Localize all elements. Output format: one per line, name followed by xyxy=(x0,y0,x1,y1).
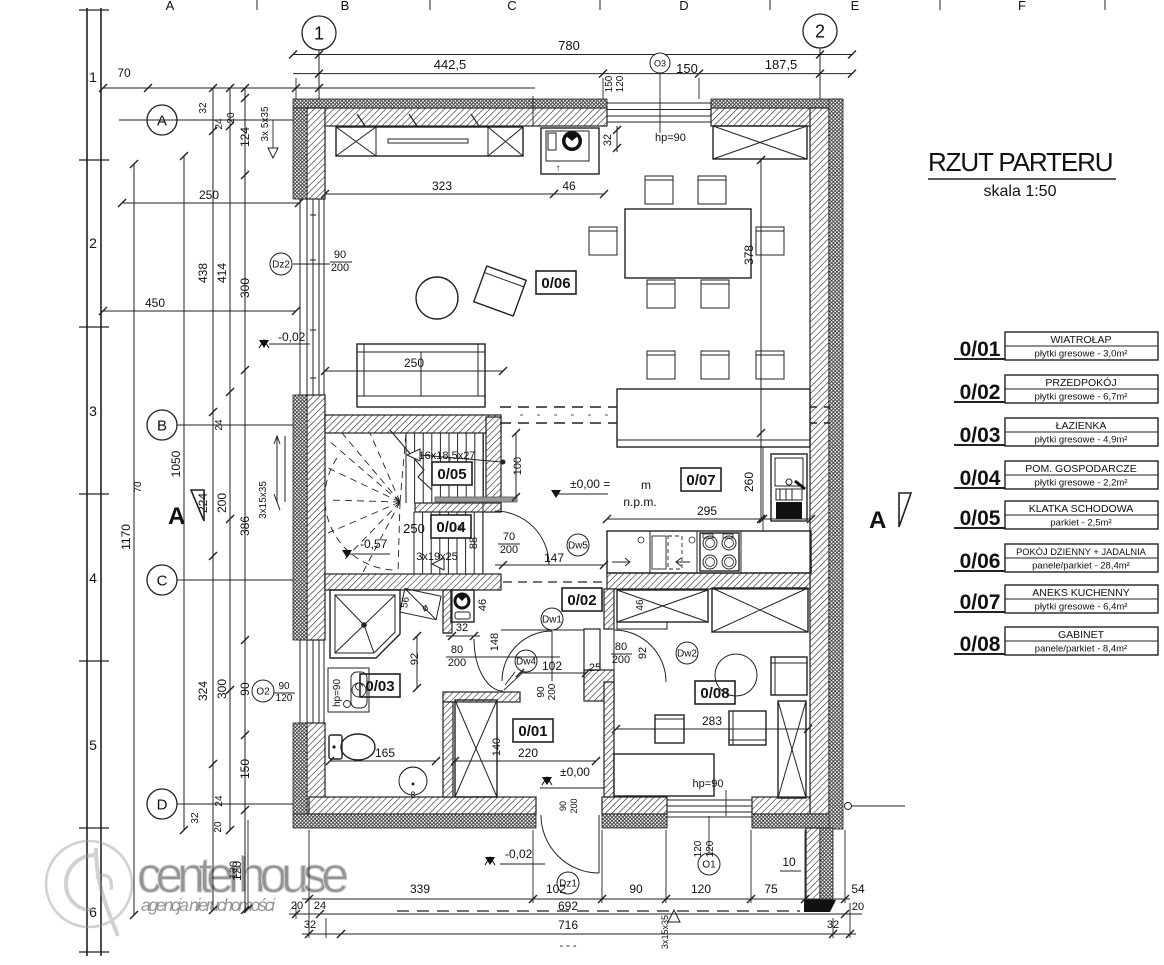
svg-text:0/05: 0/05 xyxy=(960,507,1001,530)
svg-text:250: 250 xyxy=(403,521,425,536)
dashed overhang line xyxy=(397,910,800,912)
boundary line 0/01 0/02 xyxy=(501,629,584,631)
svg-text:5: 5 xyxy=(89,737,97,753)
svg-text:0/02: 0/02 xyxy=(567,592,596,609)
svg-text:RZUT PARTERU: RZUT PARTERU xyxy=(928,147,1114,177)
wall stub 25 xyxy=(584,629,600,694)
svg-text:120: 120 xyxy=(705,840,716,857)
svg-text:378: 378 xyxy=(742,245,756,265)
interior wall stairs right xyxy=(486,417,501,512)
room label 0/06 living xyxy=(536,271,576,294)
exterior wall right insulation xyxy=(829,99,843,829)
svg-text:n.p.m.: n.p.m. xyxy=(623,495,656,509)
svg-text:450: 450 xyxy=(145,296,165,310)
exterior wall left insulation xyxy=(293,108,307,199)
washing machine xyxy=(451,590,474,622)
svg-text:150: 150 xyxy=(238,759,252,779)
door label Dz1 xyxy=(557,872,579,894)
axis marker 2 xyxy=(803,14,837,48)
svg-text:32: 32 xyxy=(198,102,209,114)
svg-text:323: 323 xyxy=(432,179,452,193)
dim 250 left xyxy=(122,202,299,204)
exterior wall bottom insulation xyxy=(293,814,536,828)
exterior wall bottom masonry xyxy=(309,797,536,814)
svg-text:płytki gresowe - 3,0m²: płytki gresowe - 3,0m² xyxy=(1035,349,1128,360)
door Dw5 stairs xyxy=(495,564,549,566)
interior wall living/stairs xyxy=(325,415,501,433)
svg-text:panele/parkiet - 28,4m²: panele/parkiet - 28,4m² xyxy=(1032,561,1130,572)
chair xyxy=(756,351,784,379)
svg-text:0/01: 0/01 xyxy=(960,338,1001,361)
svg-text:70: 70 xyxy=(503,531,515,543)
interior wall 0/08 left upper xyxy=(604,589,614,629)
desk chair 0/08 xyxy=(715,654,757,696)
svg-text:0/07: 0/07 xyxy=(960,591,1001,614)
level 0,00 entry xyxy=(542,777,552,785)
door label Dw4 xyxy=(515,650,537,672)
svg-text:300: 300 xyxy=(215,679,229,699)
dim chain 1050 xyxy=(183,156,185,830)
svg-text:90: 90 xyxy=(278,681,290,692)
svg-text:140: 140 xyxy=(491,738,503,756)
dishwasher dashed xyxy=(652,536,666,569)
room label 0/01 entry xyxy=(513,719,553,742)
dim 147 xyxy=(503,564,604,566)
svg-text:±0,00: ±0,00 xyxy=(560,765,590,779)
dim row 339 102 90 120 75 54 xyxy=(302,898,850,900)
svg-text:3x 5x35: 3x 5x35 xyxy=(260,106,271,141)
svg-text:Dz2: Dz2 xyxy=(272,260,290,271)
svg-text:70: 70 xyxy=(117,66,131,80)
window marker O3 xyxy=(650,53,670,73)
door Dw4 bath xyxy=(474,639,503,691)
svg-text:O2: O2 xyxy=(256,687,270,698)
svg-text:0/07: 0/07 xyxy=(686,472,715,489)
svg-text:200: 200 xyxy=(500,544,518,556)
svg-text:100: 100 xyxy=(512,457,524,475)
svg-text:442,5: 442,5 xyxy=(434,57,467,72)
dining table xyxy=(625,209,751,278)
svg-text:75: 75 xyxy=(764,882,778,896)
svg-text:0/06: 0/06 xyxy=(541,275,570,292)
svg-text:324: 324 xyxy=(196,681,210,701)
svg-text:O1: O1 xyxy=(702,860,716,871)
interior wall 0/08 left lower xyxy=(604,682,614,797)
svg-text:224: 224 xyxy=(196,493,210,513)
svg-text:0/08: 0/08 xyxy=(960,633,1001,656)
svg-text:10: 10 xyxy=(782,855,796,869)
svg-text:16x18,5x27: 16x18,5x27 xyxy=(419,450,476,462)
svg-text:283: 283 xyxy=(702,714,722,728)
svg-text:A: A xyxy=(869,507,886,534)
watermark logo xyxy=(46,841,349,936)
door label Dw1 xyxy=(541,608,563,630)
svg-text:hp=90: hp=90 xyxy=(693,778,724,790)
svg-text:8: 8 xyxy=(458,524,463,533)
svg-text:3x15x35: 3x15x35 xyxy=(258,481,269,519)
svg-text:ŁAZIENKA: ŁAZIENKA xyxy=(1056,420,1107,432)
svg-text:120: 120 xyxy=(691,882,711,896)
svg-text:295: 295 xyxy=(697,504,717,518)
svg-text:20: 20 xyxy=(226,112,237,124)
svg-text:A: A xyxy=(157,112,167,129)
axis marker C xyxy=(147,565,177,595)
svg-text:90: 90 xyxy=(536,686,547,698)
svg-text:Dw4: Dw4 xyxy=(516,657,536,668)
svg-text:KLATKA SCHODOWA: KLATKA SCHODOWA xyxy=(1029,503,1133,515)
svg-text:220: 220 xyxy=(518,746,538,760)
bottom extension lines xyxy=(296,830,850,938)
svg-text:0/03: 0/03 xyxy=(365,678,394,695)
svg-text:PRZEDPOKÓJ: PRZEDPOKÓJ xyxy=(1045,376,1116,389)
svg-text:150: 150 xyxy=(676,61,698,76)
dim 250 sofa xyxy=(325,370,503,372)
axis marker D xyxy=(147,789,177,819)
svg-text:200: 200 xyxy=(215,493,229,513)
svg-text:70: 70 xyxy=(133,481,144,493)
svg-text:1050: 1050 xyxy=(169,450,183,477)
svg-text:-0,02: -0,02 xyxy=(278,330,306,344)
room label 0/05 stairs xyxy=(432,462,472,485)
wall stub bottom right xyxy=(806,828,820,900)
svg-text:200: 200 xyxy=(331,262,349,274)
svg-text:32: 32 xyxy=(827,919,839,931)
svg-text:panele/parkiet - 8,4m²: panele/parkiet - 8,4m² xyxy=(1035,644,1127,655)
dim 450 left xyxy=(103,310,296,312)
svg-text:120: 120 xyxy=(693,840,704,857)
room label 0/08 office xyxy=(695,681,735,704)
kitchen top cabinets xyxy=(336,127,523,156)
svg-text:46: 46 xyxy=(477,599,489,611)
svg-text:165: 165 xyxy=(375,746,395,760)
svg-text:płytki gresowe - 6,7m²: płytki gresowe - 6,7m² xyxy=(1035,392,1128,403)
svg-text:150: 150 xyxy=(604,75,615,92)
svg-text:8: 8 xyxy=(410,790,415,800)
closet 0/01 xyxy=(455,700,497,797)
svg-text:80: 80 xyxy=(451,644,463,656)
washbasin xyxy=(328,668,369,712)
svg-text:płytki gresowe - 4,9m²: płytki gresowe - 4,9m² xyxy=(1035,435,1128,446)
door Dw1 hall xyxy=(551,631,553,681)
window O2 left wall xyxy=(298,640,325,723)
svg-text:92: 92 xyxy=(637,647,649,659)
exterior wall right masonry xyxy=(810,108,829,814)
room label 0/04 storage xyxy=(431,515,471,538)
svg-text:0/04: 0/04 xyxy=(960,467,1001,490)
dim chain col c xyxy=(244,88,246,910)
svg-text:780: 780 xyxy=(558,38,580,53)
svg-text:20: 20 xyxy=(213,821,224,833)
dim 220 xyxy=(455,760,596,762)
window O3 top xyxy=(607,101,711,126)
side table 0/08 xyxy=(655,715,684,743)
svg-text:24: 24 xyxy=(214,419,225,431)
bucket xyxy=(399,767,427,795)
shower xyxy=(330,590,400,658)
armchair xyxy=(474,266,526,316)
svg-text:92: 92 xyxy=(409,653,421,665)
chair xyxy=(647,280,675,308)
dim 295 xyxy=(607,518,811,520)
drain marker right xyxy=(845,803,852,810)
svg-text:102: 102 xyxy=(542,659,562,673)
stairs handrail bar xyxy=(435,497,517,502)
dim row 716 xyxy=(302,933,856,935)
svg-text:Dw5: Dw5 xyxy=(568,541,588,552)
svg-text:90: 90 xyxy=(334,249,346,261)
svg-text:1: 1 xyxy=(89,69,97,85)
chair xyxy=(701,351,729,379)
svg-text:skala 1:50: skala 1:50 xyxy=(984,183,1057,200)
wardrobe top right xyxy=(713,126,807,159)
dashed boundary living/kitchen xyxy=(500,407,830,423)
interior wall stairs bottom xyxy=(325,574,501,590)
dim row 692 xyxy=(289,913,862,915)
svg-text:-0,02: -0,02 xyxy=(505,847,533,861)
svg-text:0/06: 0/06 xyxy=(960,550,1001,573)
level -0,02 bottom xyxy=(485,857,495,865)
svg-text:339: 339 xyxy=(410,882,430,896)
kitchen counter xyxy=(607,531,811,573)
sofa xyxy=(357,344,485,407)
svg-text:4: 4 xyxy=(89,570,97,586)
left ruler xyxy=(79,8,109,956)
room label 0/07 kitchen xyxy=(681,468,721,491)
interior wall 0/01 left xyxy=(443,702,453,797)
svg-text:250: 250 xyxy=(404,356,424,370)
svg-text:F: F xyxy=(1018,0,1026,13)
chair xyxy=(756,227,784,255)
svg-text:120: 120 xyxy=(276,693,293,704)
svg-text:90: 90 xyxy=(558,801,568,811)
dim 70 top left xyxy=(103,87,535,89)
axis marker 1 xyxy=(302,16,336,50)
level 0,00 stairs xyxy=(551,490,561,498)
svg-text:GABINET: GABINET xyxy=(1058,629,1105,641)
svg-text:20: 20 xyxy=(852,901,864,913)
svg-text:414: 414 xyxy=(215,263,229,283)
svg-text:płytki gresowe - 2,2m²: płytki gresowe - 2,2m² xyxy=(1035,478,1128,489)
dim chain col a xyxy=(212,88,214,910)
interior wall bathroom bottom xyxy=(443,692,520,702)
svg-text:C: C xyxy=(507,0,516,13)
svg-text:2: 2 xyxy=(89,235,97,251)
outside steps arrows xyxy=(274,436,285,510)
svg-text:32: 32 xyxy=(304,919,316,931)
room label 0/03 bath xyxy=(360,674,400,697)
svg-text:agencja nieruchomości: agencja nieruchomości xyxy=(141,895,276,915)
svg-text:3: 3 xyxy=(89,403,97,419)
svg-text:46: 46 xyxy=(562,179,576,193)
svg-text:B: B xyxy=(157,417,167,434)
chair xyxy=(698,176,726,204)
door label Dw2 xyxy=(676,642,698,664)
svg-text:187,5: 187,5 xyxy=(765,57,798,72)
toilet xyxy=(329,735,342,759)
interior wall bathroom right xyxy=(443,590,452,633)
svg-text:1: 1 xyxy=(314,23,324,43)
stairs treads upper flight xyxy=(406,433,483,574)
dim chain col b xyxy=(229,88,231,830)
svg-text:Dw1: Dw1 xyxy=(542,615,562,626)
svg-text:WIATROŁAP: WIATROŁAP xyxy=(1050,334,1111,346)
svg-text:- - -: - - - xyxy=(559,940,576,952)
svg-text:O3: O3 xyxy=(654,59,666,69)
dashed lintel hall xyxy=(503,581,602,583)
svg-text:parkiet - 2,5m²: parkiet - 2,5m² xyxy=(1050,518,1111,529)
svg-text:24: 24 xyxy=(214,795,225,807)
svg-text:716: 716 xyxy=(558,918,578,932)
chair xyxy=(589,227,617,255)
tall wardrobe 0/08 xyxy=(778,701,806,798)
svg-text:124: 124 xyxy=(238,127,252,147)
svg-text:32: 32 xyxy=(602,134,614,146)
svg-text:ANEKS KUCHENNY: ANEKS KUCHENNY xyxy=(1032,587,1129,599)
wardrobe 0/08 left xyxy=(617,590,708,622)
door label Dz2 xyxy=(270,253,292,275)
svg-text:250: 250 xyxy=(199,188,219,202)
svg-text:0/01: 0/01 xyxy=(518,723,547,740)
chair xyxy=(645,176,673,204)
svg-text:147: 147 xyxy=(544,551,564,565)
svg-text:hp=90: hp=90 xyxy=(332,679,343,708)
svg-text:POM. GOSPODARCZE: POM. GOSPODARCZE xyxy=(1025,463,1136,475)
svg-text:m: m xyxy=(641,478,651,492)
svg-text:54: 54 xyxy=(851,882,865,896)
svg-text:hp=90: hp=90 xyxy=(655,132,686,144)
chair xyxy=(647,351,675,379)
interior wall kitchen bottom xyxy=(607,573,810,589)
chair 0/08 xyxy=(729,711,766,745)
svg-text:D: D xyxy=(157,796,168,813)
svg-text:3x15x35: 3x15x35 xyxy=(660,915,670,949)
door label Dw5 xyxy=(567,534,589,556)
level -0,57 xyxy=(342,550,352,558)
svg-text:46: 46 xyxy=(635,599,646,611)
svg-text:90: 90 xyxy=(629,882,643,896)
svg-text:200: 200 xyxy=(569,798,579,813)
svg-text:102: 102 xyxy=(546,882,566,896)
terrace step triangle xyxy=(668,910,680,922)
svg-text:32: 32 xyxy=(190,812,201,824)
stair landing wall xyxy=(415,503,501,512)
cabinet 0/08 right xyxy=(771,657,807,695)
stairs break line xyxy=(390,430,432,490)
svg-text:200: 200 xyxy=(612,654,630,666)
svg-text:148: 148 xyxy=(489,633,501,651)
exterior wall top insulation xyxy=(293,99,607,108)
svg-text:Dw2: Dw2 xyxy=(677,649,697,660)
svg-text:płytki gresowe - 6,4m²: płytki gresowe - 6,4m² xyxy=(1035,602,1128,613)
stove xyxy=(700,533,739,571)
svg-text:0/05: 0/05 xyxy=(437,466,466,483)
dim chain 1170 xyxy=(133,164,135,915)
door label O2 xyxy=(252,680,274,702)
door Dz2 left wall xyxy=(298,199,325,395)
kitchen island bench xyxy=(617,389,810,447)
wardrobe 0/08 right xyxy=(712,588,808,632)
door Dw2 office xyxy=(614,630,666,682)
svg-text:A: A xyxy=(166,0,175,13)
svg-text:200: 200 xyxy=(547,683,558,700)
svg-text:90: 90 xyxy=(238,682,252,696)
room label 0/02 hall xyxy=(562,588,602,611)
axis marker B xyxy=(147,410,177,440)
svg-text:-0,57: -0,57 xyxy=(360,537,388,551)
svg-text:0/03: 0/03 xyxy=(960,424,1001,447)
dim 780 xyxy=(293,54,852,56)
dim 442,5 150 187,5 xyxy=(293,73,852,75)
top ruler letters xyxy=(166,0,1026,13)
svg-text:D: D xyxy=(679,0,688,13)
coffee table xyxy=(416,277,458,319)
chair xyxy=(701,280,729,308)
door Dz1 entrance xyxy=(598,815,600,873)
svg-text:1170: 1170 xyxy=(119,524,133,550)
svg-text:0/02: 0/02 xyxy=(960,381,1001,404)
stairs direction arrow xyxy=(407,449,420,461)
washer unit top xyxy=(541,128,599,174)
level -0,02 xyxy=(259,340,269,348)
exterior wall top masonry xyxy=(307,108,607,126)
dim 32 top xyxy=(616,126,618,152)
dim 378 260 xyxy=(760,160,762,519)
dim 283 xyxy=(616,728,808,730)
cabinet 56 xyxy=(400,589,441,620)
svg-text:A: A xyxy=(168,503,185,530)
svg-text:6: 6 xyxy=(89,904,97,920)
svg-text:300: 300 xyxy=(238,278,252,298)
svg-text:80: 80 xyxy=(615,641,627,653)
stairs treads lower flight xyxy=(414,512,483,574)
svg-text:2: 2 xyxy=(815,21,825,41)
svg-text:E: E xyxy=(851,0,860,13)
svg-text:↑: ↑ xyxy=(556,163,561,174)
svg-text:200: 200 xyxy=(448,657,466,669)
dim 165 xyxy=(330,760,436,762)
axis marker A xyxy=(147,105,177,135)
svg-text:B: B xyxy=(341,0,350,13)
svg-text:120: 120 xyxy=(615,75,626,92)
svg-text:260: 260 xyxy=(742,472,756,492)
dim 102 xyxy=(520,672,586,674)
window O1 bottom wall xyxy=(667,797,752,828)
svg-text:386: 386 xyxy=(238,516,252,536)
dim 323 xyxy=(325,193,604,195)
small step arrow bathroom xyxy=(432,558,444,570)
svg-text:POKÓJ DZIENNY + JADALNIA: POKÓJ DZIENNY + JADALNIA xyxy=(1016,547,1147,557)
svg-text:25: 25 xyxy=(589,662,601,674)
svg-text:±0,00 =: ±0,00 = xyxy=(570,477,610,491)
svg-text:88: 88 xyxy=(468,537,480,549)
fridge oven column xyxy=(771,454,807,521)
dim 100 xyxy=(515,433,517,497)
svg-text:438: 438 xyxy=(196,263,210,283)
svg-text:32: 32 xyxy=(456,622,468,634)
desk 0/08 xyxy=(614,754,714,796)
stairs winder dashed lines xyxy=(325,433,406,574)
svg-text:C: C xyxy=(157,572,168,589)
door label O1 xyxy=(698,853,720,875)
svg-text:24: 24 xyxy=(214,118,225,130)
exterior wall left masonry xyxy=(307,108,325,199)
dim 32 washer xyxy=(446,635,480,637)
